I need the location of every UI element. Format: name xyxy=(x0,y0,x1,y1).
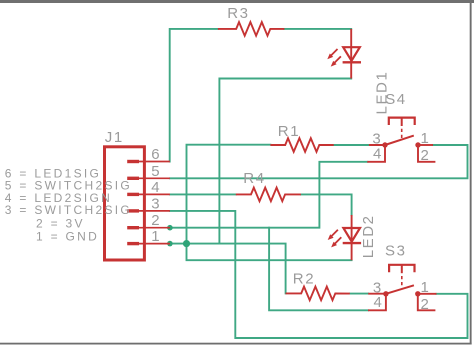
wire 3V branch down to S3 pin4 xyxy=(269,228,368,311)
switch S3 xyxy=(368,265,437,311)
pin 5 xyxy=(127,177,170,180)
junction dot J1 pin2 / 3V xyxy=(167,225,173,231)
switch S4 xyxy=(367,118,435,162)
svg-text:2: 2 xyxy=(421,147,431,164)
resistor R2 xyxy=(286,287,350,301)
pin 3 xyxy=(127,209,170,212)
frame bottom border xyxy=(0,343,472,345)
wire GND dot down and right to LED2 cathode xyxy=(187,244,352,261)
junction dot J1 pin1 / GND xyxy=(167,241,173,247)
resistor R4 xyxy=(236,188,301,202)
svg-text:1: 1 xyxy=(421,130,431,147)
wire R3 to LED1 anode xyxy=(284,28,351,30)
pin 4 xyxy=(127,193,170,196)
svg-text:R2: R2 xyxy=(293,271,315,288)
wire net LED1SIG: J1 pin6 up to R3 xyxy=(170,29,218,162)
svg-text:1: 1 xyxy=(421,279,431,296)
pin 1 xyxy=(127,242,170,245)
wire R1 right to S4 pin3 xyxy=(334,144,369,146)
wire net SWITCH2SIG(5): S4 pin1 right, down, left to J1 pin5 xyxy=(170,145,468,178)
svg-text:R4: R4 xyxy=(243,170,265,187)
pin 6 xyxy=(127,160,170,163)
svg-text:5: 5 xyxy=(151,163,161,180)
wire net 3V: J1 pin2 right, up to S4 pin4 xyxy=(170,162,367,228)
svg-text:LED2: LED2 xyxy=(360,214,377,258)
svg-text:4: 4 xyxy=(151,179,161,196)
svg-text:4: 4 xyxy=(373,145,383,162)
connector J1 body xyxy=(105,147,145,260)
svg-text:1 = GND: 1 = GND xyxy=(36,229,99,243)
svg-text:1: 1 xyxy=(151,228,161,245)
wire J1 pin4 to R4 left xyxy=(170,193,236,195)
svg-text:3 = SWITCH2SIG: 3 = SWITCH2SIG xyxy=(5,203,132,217)
wire R2 right to S3 pin3 xyxy=(350,293,368,295)
wire R4 right to LED2 anode xyxy=(301,194,352,215)
frame right border xyxy=(470,3,472,345)
svg-text:S3: S3 xyxy=(385,242,407,259)
LED LED2 xyxy=(331,215,361,260)
resistor R1 xyxy=(270,138,333,152)
svg-text:R3: R3 xyxy=(227,5,249,22)
resistor R3 xyxy=(218,22,285,36)
svg-text:2: 2 xyxy=(421,296,431,313)
wire GND branch up to R1 left xyxy=(187,145,271,244)
svg-text:4: 4 xyxy=(373,294,383,311)
wire net GND rail right then down to R2 left xyxy=(170,244,286,294)
svg-text:R1: R1 xyxy=(278,123,300,140)
svg-text:LED1: LED1 xyxy=(374,71,391,115)
junction node GND big dot xyxy=(183,240,190,247)
LED LED1 xyxy=(331,29,362,79)
wire LED1 cathode down-left to GND rail xyxy=(219,79,351,244)
frame top bar xyxy=(0,0,474,3)
svg-text:2: 2 xyxy=(151,212,161,229)
svg-text:J1: J1 xyxy=(105,129,124,146)
pin 2 xyxy=(127,226,170,229)
svg-text:6: 6 xyxy=(151,146,161,163)
wire net SWITCH2SIG(3): J1 pin3 right, down, along bottom, up to S3 pin1 xyxy=(170,211,468,338)
svg-text:3: 3 xyxy=(151,195,161,212)
